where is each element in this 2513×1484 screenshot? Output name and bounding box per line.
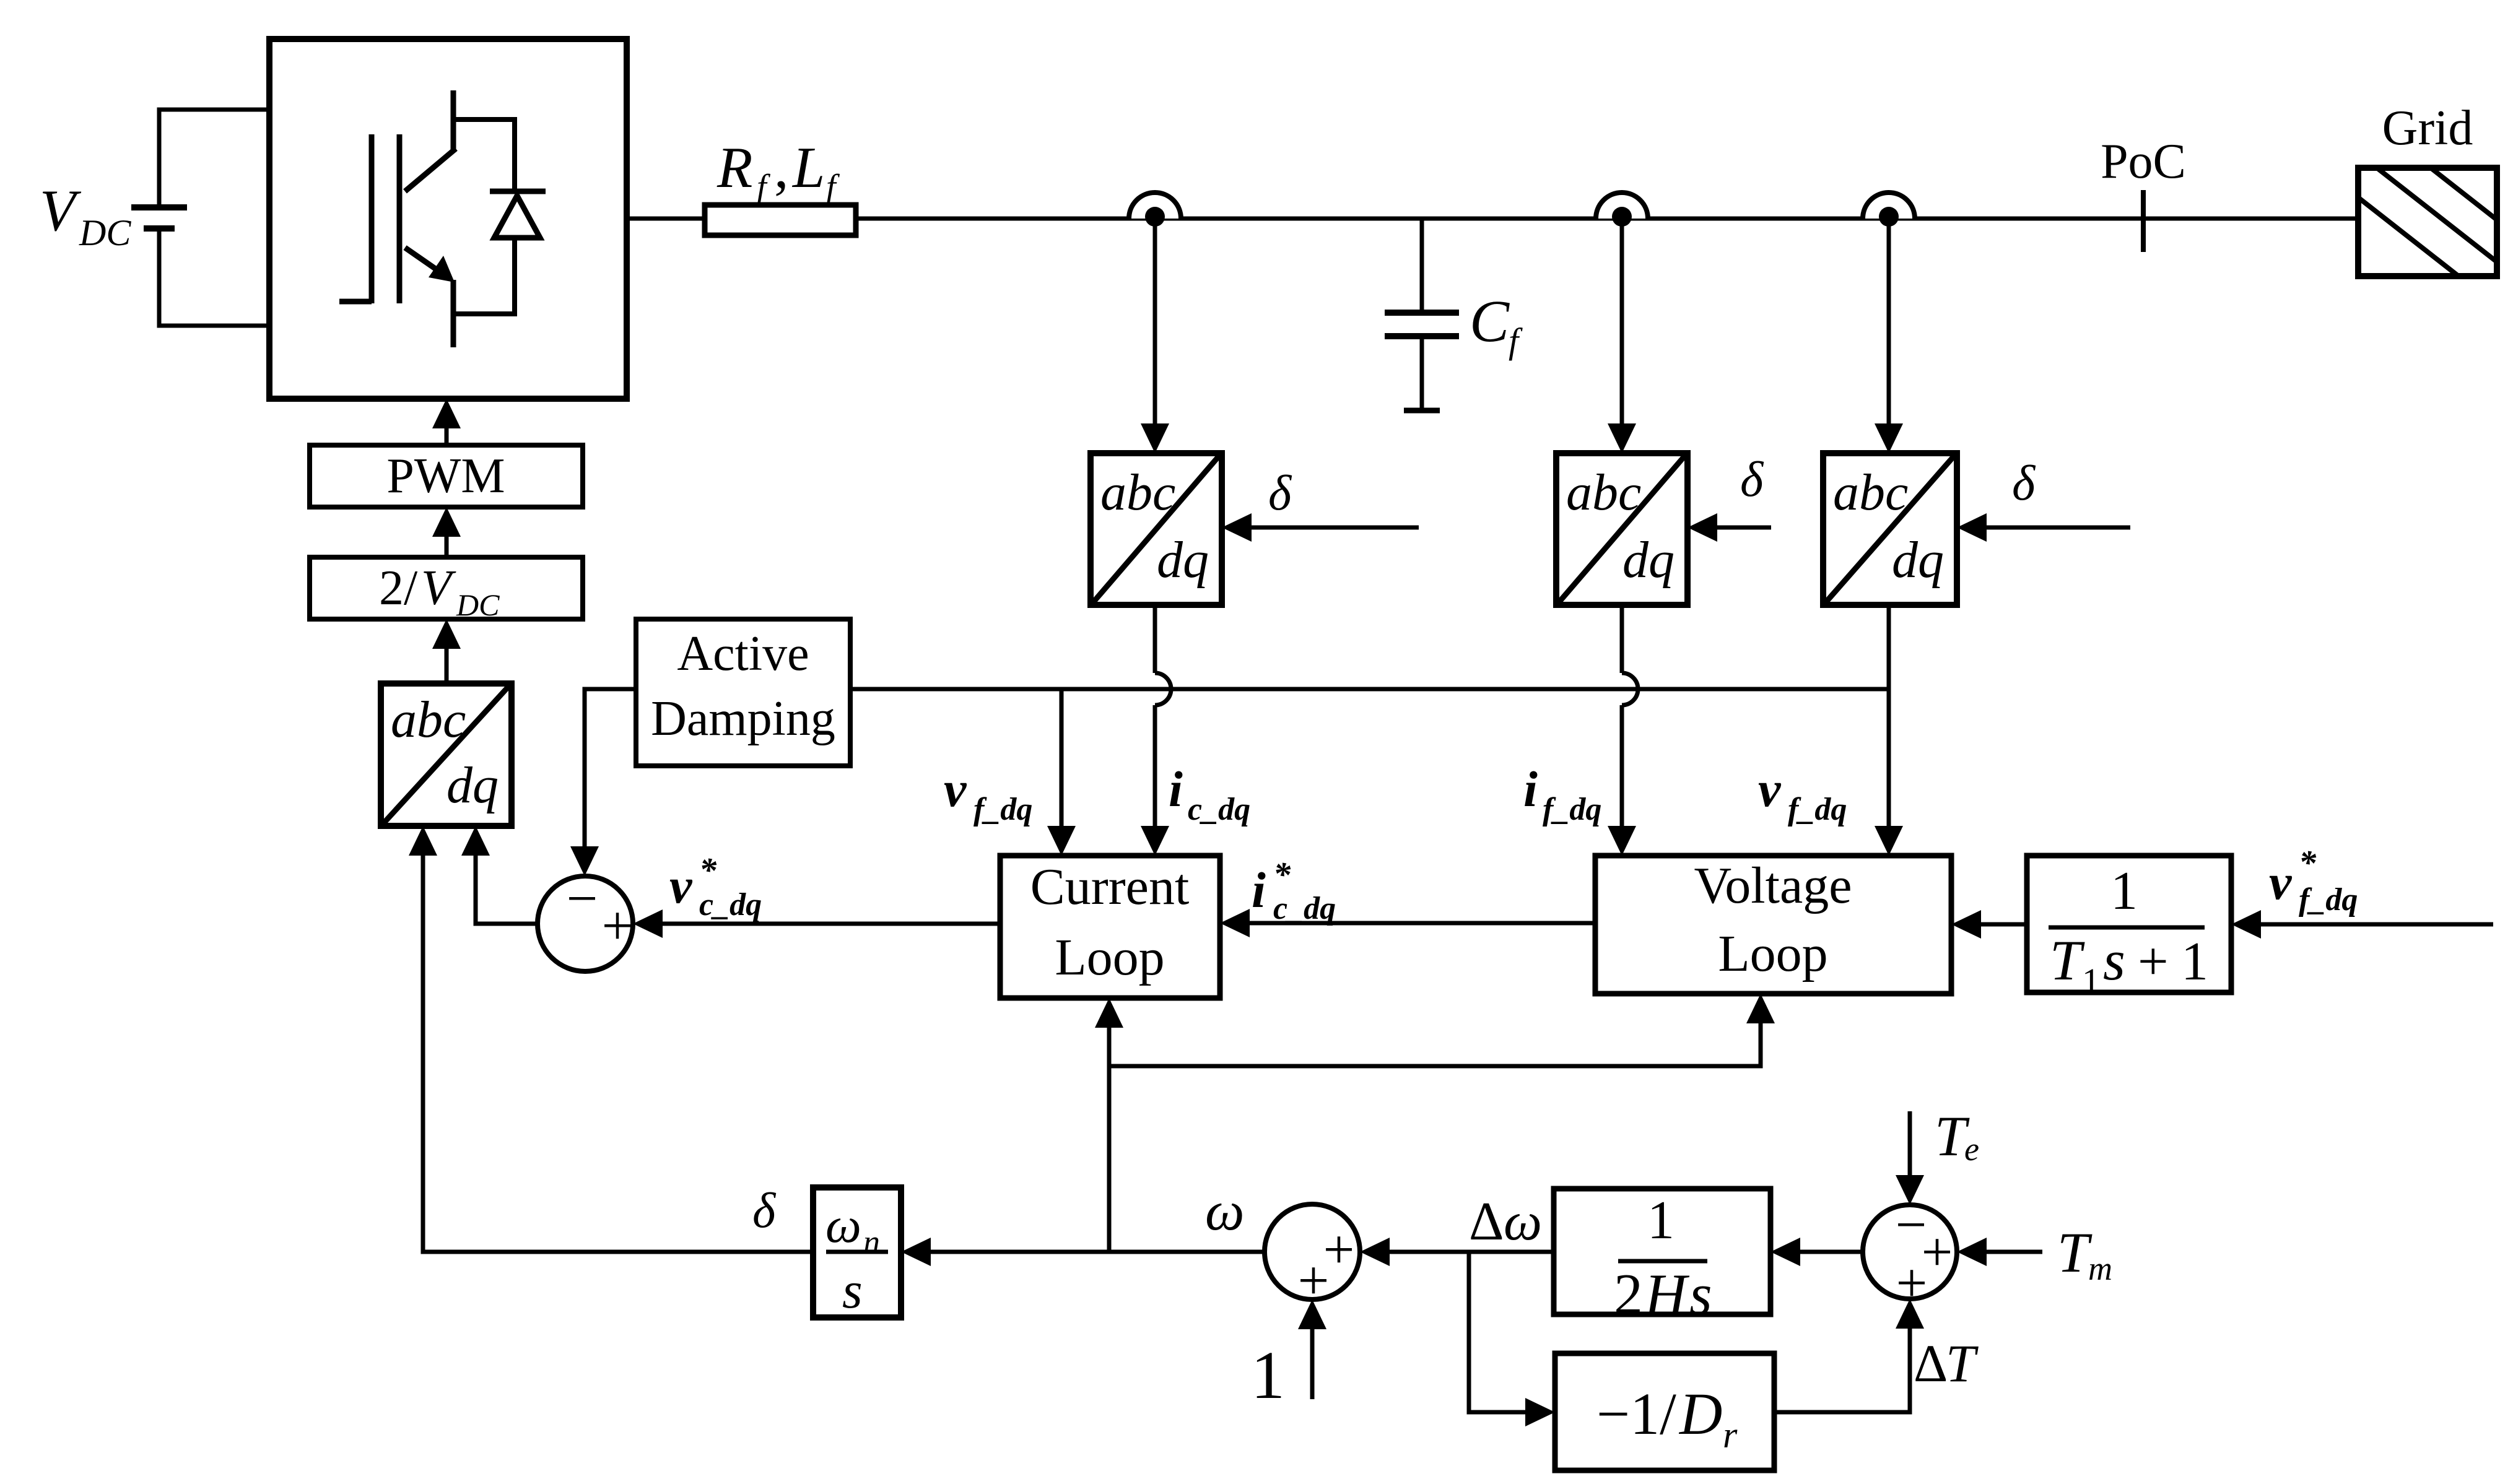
svg-text:ω: ω [1205,1181,1245,1242]
svg-text:PWM: PWM [386,449,505,503]
svg-text:dq: dq [1622,531,1675,589]
wire Voltage Loop output i_c_dq* [1250,921,1595,926]
summer S2 omega [1265,1204,1360,1300]
block integrator wn/s [813,1187,901,1317]
svg-text:Δ: Δ [1914,1334,1948,1393]
arrow v_c_dq* into U4 bottom [461,826,490,856]
block Active Damping [636,619,850,766]
wire damping output right (v_f_dq tap) [850,687,1889,692]
label integrator numerator wn [825,1197,880,1261]
capacitor Cf plate bottom [1385,333,1459,339]
svg-text:2/: 2/ [379,561,418,615]
svg-text:Δ: Δ [1469,1192,1504,1252]
wire summer S1 output riser [474,856,478,926]
block inertia 1/2Hs [1554,1189,1770,1314]
wire delta stub U2 [1714,526,1771,530]
svg-text:dq: dq [1892,531,1944,589]
wire torque summer to inertia block [1800,1250,1864,1254]
transistor Q1 body bar [397,134,403,303]
label Current Loop [1030,858,1190,986]
svg-text:Current: Current [1030,858,1190,916]
svg-text:abc: abc [1100,464,1175,521]
inertia fraction bar [1618,1259,1707,1264]
battery VDC plate short [144,225,175,232]
svg-text:DC: DC [79,212,131,253]
svg-text:v: v [669,857,693,914]
label filter denominator T1s+1 [2050,929,2208,1001]
wire delta stub U1 [1248,526,1419,530]
capacitor Cf lower lead [1420,336,1424,410]
wire Tm input [1987,1250,2042,1254]
summer S1 [538,876,633,971]
svg-text:e: e [1964,1130,1979,1168]
label v_f_dq right [1758,761,1847,827]
block Voltage Loop [1595,856,1951,994]
SECTION: swing equation [421,994,2113,1470]
arrow delta into U1 [1222,513,1252,542]
svg-text:f_dq: f_dq [973,792,1032,827]
svg-text:ω: ω [1504,1192,1542,1252]
SECTION: power stage [40,39,2497,410]
capacitor Cf end bar [1404,408,1440,414]
wire damping drop to summer S1 [583,687,587,847]
wire collector to diode [453,117,515,122]
arrow Tm into summer S3 right [1957,1238,1987,1266]
wire main bus [856,217,2358,221]
svg-text:n: n [863,1223,880,1261]
wire node A to transform U1 [1153,219,1157,427]
block Current Loop [1000,856,1220,998]
wire U4 to 2/VDC [445,649,449,683]
node C hop [1863,193,1915,219]
svg-text:1: 1 [1647,1191,1675,1251]
svg-text:c_dq: c_dq [1188,792,1250,827]
svg-text:T: T [1946,1334,1979,1393]
svg-text:*: * [1273,856,1291,894]
arrow Te into summer S3 top [1896,1175,1924,1205]
voltage source VDC label [40,178,131,253]
diode D1 triangle [494,196,540,238]
arrow i_c_dq into Current Loop [1141,826,1169,856]
label i_f_dq [1523,761,1601,827]
arrow delta-omega into summer S2 [1360,1238,1390,1266]
wire U1 output hop over damping line [1155,673,1171,705]
wire omega branch horizontal to Voltage Loop [1109,1064,1761,1069]
arrow into filter right [2231,910,2261,939]
arrow into PWM bottom [432,507,461,537]
wire omega branch up to Current Loop [1107,1028,1112,1252]
arrow omega into Current Loop bottom [1095,998,1123,1028]
label -1/Dr [1596,1381,1738,1456]
arrow into S1 right [633,909,663,938]
svg-text:dq: dq [446,757,499,814]
svg-text:−1/: −1/ [1596,1381,1676,1447]
arrow into droop block left [1525,1398,1555,1426]
svg-text:ω: ω [825,1197,861,1253]
wire node C to transform U3 [1887,219,1891,427]
block droop -1/Dr [1555,1353,1774,1470]
svg-text:f_dq: f_dq [2299,882,2358,918]
arrow into 2/VDC bottom [432,619,461,649]
block PWM [310,445,583,507]
node A dot [1145,207,1165,227]
wire delta long riser [421,856,425,1252]
svg-text:R: R [716,136,752,200]
node B dot [1612,207,1632,227]
svg-text:*: * [699,851,717,890]
wire omega branch riser to Voltage Loop [1759,1023,1763,1069]
battery VDC plate long [131,204,187,210]
svg-text:2: 2 [1614,1262,1643,1327]
wire delta-omega from inertia block [1388,1250,1554,1254]
svg-text:f_dq: f_dq [1788,792,1847,827]
wire U2 output upper [1620,605,1624,673]
wire node B to transform U2 [1620,219,1624,427]
svg-text:v: v [2269,854,2293,910]
svg-text:D: D [1678,1381,1722,1447]
label Rf,Lf [716,136,840,206]
svg-text:Loop: Loop [1718,925,1827,983]
arrow v_f_dq into Current Loop [1047,826,1076,856]
label 2/VDC [379,561,500,622]
arrow into U1 top [1141,423,1169,453]
wire U3 output (v_f_dq) [1887,605,1891,828]
svg-text:v: v [944,761,967,817]
arrow into U3 top [1875,423,1903,453]
transistor Q1 collector lead [451,90,456,152]
wire Te input [1908,1111,1912,1175]
node A hop [1129,193,1181,219]
wire delta stub U3 [1984,526,2130,530]
svg-text:abc: abc [391,691,466,749]
svg-text:i: i [1169,761,1183,817]
diode D1 cathode bar [490,189,546,194]
svg-text:Active: Active [677,627,809,681]
svg-text:dq: dq [1157,531,1209,589]
diode D1 cathode lead [512,117,517,194]
wire PWM to inverter [445,428,449,445]
label i_c_dq [1169,761,1250,827]
wire omega line from summer S2 to integrator [931,1250,1265,1254]
SECTION: transforms [944,219,2130,856]
arrow into U2 top [1608,423,1636,453]
wire Current Loop output to S1 [663,922,1000,926]
svg-text:Voltage: Voltage [1694,857,1852,914]
arrow into inverter bottom [432,399,461,428]
wire VDC top [159,108,272,112]
wire U1 output lower (i_c_dq) [1153,705,1157,828]
diode D1 anode lead [512,238,517,316]
label v_f_dq left [944,761,1032,827]
wire 2/VDC to PWM [445,537,449,557]
wire constant 1 input [1310,1329,1315,1399]
capacitor Cf riser [1420,219,1424,313]
wire VDC left upper [157,108,162,208]
transistor Q1 emitter lead [451,280,456,347]
inverter block [269,39,627,399]
svg-text:DC: DC [456,588,500,622]
wire inverter output [627,217,705,221]
svg-text:s: s [842,1262,863,1319]
svg-text:i: i [1252,862,1266,918]
svg-text:m: m [2088,1250,2112,1287]
svg-text:r: r [1723,1415,1738,1456]
wire droop output [1774,1410,1912,1415]
arrow 1 into summer S2 bottom [1298,1300,1326,1329]
integrator fraction bar [826,1250,888,1254]
svg-text:δ: δ [752,1184,777,1238]
wire damping output left [585,687,636,692]
svg-text:1: 1 [1251,1337,1285,1413]
svg-text:c_dq: c_dq [699,887,762,922]
svg-text:T: T [2050,929,2085,992]
svg-text:v: v [1758,761,1782,817]
node B hop [1596,193,1648,219]
svg-text:L: L [791,136,825,200]
label Tm [2057,1221,2112,1287]
wire droop branch horizontal [1467,1410,1526,1415]
svg-text:δ: δ [1268,466,1292,521]
svg-text:T: T [2057,1221,2093,1284]
svg-text:1: 1 [2110,861,2138,921]
svg-text:1: 1 [2181,932,2208,992]
transistor Q1 gate bar [369,134,375,303]
svg-text:c_dq: c_dq [1273,891,1336,926]
wire emitter to diode [453,311,515,316]
svg-text:PoC: PoC [2101,134,2186,189]
capacitor Cf plate top [1385,310,1459,316]
label delta-T [1914,1334,1979,1393]
arrow into summer S1 top [570,846,599,876]
svg-text:1: 1 [2082,961,2100,1001]
arrow into inertia right [1770,1238,1800,1266]
transistor Q1 gate lead [339,299,372,305]
node C dot [1879,207,1899,227]
wire v_f_dq* input [2261,922,2493,927]
transform U4 abc/dq [381,683,512,826]
block first-order filter 1/(T1s+1) [2027,856,2231,992]
transform U1 abc/dq [1091,453,1222,605]
wire summer S1 output horizontal [476,922,539,926]
label Cf [1470,288,1523,361]
arrow omega into Voltage Loop bottom [1746,994,1775,1023]
svg-text:−: − [567,868,598,929]
svg-text:C: C [1470,288,1510,354]
resistor Rf,Lf [705,205,856,235]
transistor Q1 collector diagonal [405,149,456,191]
svg-text:+: + [2138,932,2169,992]
svg-text:Loop: Loop [1055,929,1164,986]
wire U2 output lower (i_f_dq) [1620,705,1624,828]
wire U2 output hop over damping line [1622,673,1638,705]
svg-text:V: V [40,178,82,243]
label Active Damping [651,627,835,746]
arrow delta into U3 [1957,513,1987,542]
svg-text:V: V [421,561,456,615]
label inertia denominator 2Hs [1614,1262,1712,1327]
label Voltage Loop [1694,857,1852,983]
transform U3 abc/dq [1823,453,1957,605]
PoC tick [2141,190,2146,252]
arrow i_f_dq into Voltage Loop [1608,826,1636,856]
wire filter output to Voltage Loop [1981,922,2027,927]
label Te [1935,1104,1979,1168]
svg-text:,: , [774,136,789,200]
arrow v_f_dq into Voltage Loop [1875,826,1903,856]
transistor Q1 emitter diagonal [405,248,443,274]
svg-text:H: H [1644,1262,1690,1327]
label v_f_dq* [2269,844,2358,918]
arrow into Voltage Loop right [1951,910,1981,939]
svg-text:δ: δ [2012,456,2036,511]
svg-text:+: + [602,895,634,957]
wire delta-T riser [1908,1329,1912,1415]
transistor Q1 emitter arrow [429,256,455,282]
wire VDC left lower [157,228,162,328]
svg-text:*: * [2299,844,2317,882]
arrow i_c_dq* into Current Loop [1220,909,1250,937]
transform U2 abc/dq [1556,453,1688,605]
svg-text:abc: abc [1566,464,1641,521]
arrow delta into U4 bottom [409,826,437,856]
svg-text:Grid: Grid [2382,101,2473,155]
block 2/VDC [310,557,583,619]
label delta-omega [1469,1192,1542,1252]
svg-text:+: + [1298,1250,1330,1311]
label v_c_dq* [669,851,762,922]
label i_c_dq* [1252,856,1336,926]
arrow omega into integrator right [901,1238,931,1266]
summer S3 torque [1863,1205,1957,1299]
wire delta from integrator [421,1250,814,1254]
svg-text:i: i [1523,761,1538,817]
svg-text:s: s [2103,929,2125,992]
arrow delta-T into summer S3 bottom [1896,1299,1924,1329]
arrow delta into U2 [1688,513,1717,542]
Grid block [2358,168,2497,276]
svg-text:Damping: Damping [651,692,835,746]
wire VDC bottom [159,324,272,328]
svg-text:δ: δ [1740,453,1764,507]
wire droop branch riser [1467,1250,1471,1413]
SECTION: control loops [310,399,2493,1252]
svg-text:abc: abc [1833,464,1908,521]
svg-text:s: s [1689,1262,1712,1327]
svg-text:f_dq: f_dq [1543,792,1601,827]
wire v_f_dq branch to Current Loop [1060,689,1064,828]
wire U1 output upper [1153,605,1157,673]
filter fraction bar [2049,926,2205,930]
